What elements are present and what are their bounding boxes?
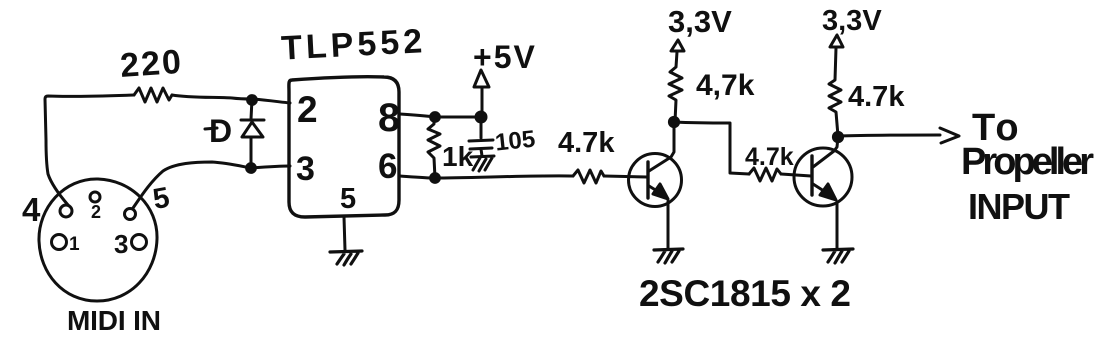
transistor Q1 collector <box>649 123 674 171</box>
output wire to Propeller with arrow <box>838 135 940 136</box>
svg-text:2SC1815 x 2: 2SC1815 x 2 <box>639 273 851 314</box>
diode D1 wire to node B <box>250 137 253 168</box>
MIDI pin 3 circle <box>132 235 147 250</box>
transistor Q2 circle <box>794 148 852 206</box>
svg-text:4: 4 <box>22 191 41 228</box>
diode D1 cathode bar <box>241 119 264 122</box>
svg-text:6: 6 <box>378 147 397 186</box>
transistor Q1 base bar <box>646 162 649 198</box>
diode D1 triangle <box>242 122 263 137</box>
ground under Q1 <box>654 249 683 263</box>
transistor Q1 emitter with arrow <box>649 186 662 194</box>
wire node B to TLP pin3 <box>251 166 290 168</box>
3.3V arrow triangle for Q2 <box>830 35 843 47</box>
svg-text:4.7k: 4.7k <box>558 127 615 159</box>
svg-text:220: 220 <box>119 43 184 85</box>
svg-text:3: 3 <box>296 150 315 188</box>
junction dot Q2 collector node <box>833 132 842 141</box>
svg-text:INPUT: INPUT <box>968 186 1070 227</box>
MIDI pin 5 circle <box>125 209 136 220</box>
svg-text:2: 2 <box>297 89 318 130</box>
junction dot pin6 node <box>431 174 440 183</box>
svg-text:MIDI IN: MIDI IN <box>67 305 161 336</box>
MIDI pin 1 circle <box>52 235 67 250</box>
wire TLP pin8 to +5V node <box>400 114 481 117</box>
svg-text:D: D <box>209 113 232 149</box>
+5V riser wire <box>481 88 484 116</box>
ground under capacitor <box>471 156 494 171</box>
svg-text:Propeller: Propeller <box>961 141 1094 183</box>
TLP552 pin 5 wire <box>344 217 345 250</box>
svg-text:1k: 1k <box>442 141 474 172</box>
wire Q1 collector to interstage resistor <box>674 122 749 174</box>
svg-text:3,3V: 3,3V <box>822 5 882 37</box>
+5V arrow triangle <box>474 70 489 87</box>
junction dot pin8 node <box>431 113 440 122</box>
3.3V arrow triangle for Q1 <box>671 40 684 51</box>
svg-text:4.7k: 4.7k <box>745 143 794 171</box>
svg-text:5: 5 <box>340 183 356 215</box>
wire from MIDI pin 4 up-left and to top rail <box>45 95 134 205</box>
diode D1 wire from node A down <box>251 99 252 119</box>
node A junction dot <box>248 96 257 105</box>
svg-text:4,7k: 4,7k <box>696 69 755 102</box>
svg-text:1: 1 <box>69 234 80 255</box>
svg-text:2: 2 <box>91 202 101 222</box>
node B junction dot <box>247 164 256 173</box>
junction dot Q1 collector node <box>669 117 678 126</box>
label D crossbar <box>205 128 217 129</box>
resistor R6 4.7k pull-up Q2 <box>829 48 841 136</box>
wire node A to TLP pin2 <box>252 99 290 103</box>
transistor Q1 emitter lead down <box>667 201 670 248</box>
junction dot +5V node <box>476 112 486 122</box>
wire resistor to node A <box>172 95 252 99</box>
MIDI pin 4 circle <box>60 205 72 217</box>
resistor R1 220 <box>134 88 172 102</box>
svg-text:+5V: +5V <box>473 39 537 75</box>
resistor R4 4.7k pull-up Q1 <box>669 52 682 122</box>
wire TLP pin6 to base resistor <box>400 176 573 178</box>
ground under TLP552 <box>330 251 362 265</box>
wire R3 to Q1 base <box>604 176 647 177</box>
op-to: TLP552 optocoupler box U1 <box>289 77 399 217</box>
capacitor C1 105 <box>469 117 493 156</box>
transistor Q2 emitter with arrow <box>813 184 827 193</box>
transistor Q2 base bar <box>810 156 813 195</box>
transistor Q1 circle <box>629 154 682 207</box>
svg-text:4.7k: 4.7k <box>848 81 905 113</box>
svg-text:3: 3 <box>114 229 128 259</box>
wire R5 to Q2 base <box>781 174 811 176</box>
transistor Q2 collector <box>813 137 838 167</box>
ground under Q2 <box>823 249 853 263</box>
svg-text:3,3V: 3,3V <box>668 4 732 39</box>
resistor R2 1k vertical <box>428 117 440 178</box>
transistor Q2 emitter lead down <box>836 203 839 248</box>
svg-text:TLP552: TLP552 <box>280 22 427 68</box>
svg-text:105: 105 <box>494 126 537 157</box>
MIDI pin 2 circle <box>90 192 100 202</box>
wire from MIDI pin 5 up to node B <box>133 162 251 208</box>
svg-text:8: 8 <box>378 96 400 140</box>
MIDI DIN connector body <box>39 179 157 301</box>
resistor R5 4.7k interstage <box>749 168 781 181</box>
resistor R3 4.7k horizontal <box>573 170 604 183</box>
